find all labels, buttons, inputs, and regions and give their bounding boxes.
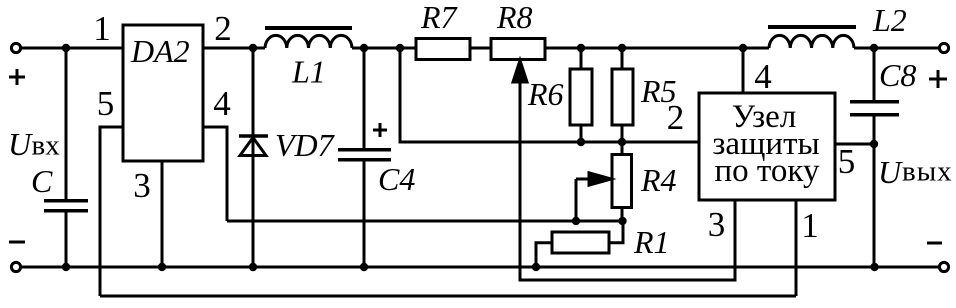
node C8 bottom <box>870 263 878 271</box>
node pin5 C8 <box>870 140 878 148</box>
svg-text:5: 5 <box>838 142 856 181</box>
svg-text:R6: R6 <box>527 76 564 112</box>
output terminal minus <box>939 262 948 271</box>
svg-text:по току: по току <box>715 153 820 189</box>
input terminal minus <box>11 262 20 271</box>
plus sign output <box>929 70 947 88</box>
svg-text:L1: L1 <box>291 54 326 90</box>
wire block pin4 <box>742 48 745 93</box>
svg-text:4: 4 <box>754 57 772 96</box>
node R4 bottom <box>618 217 626 225</box>
inductor L1 <box>265 35 352 48</box>
node C8 top <box>870 44 878 52</box>
node R6 top <box>577 44 585 52</box>
node R1 left bottom <box>532 263 540 271</box>
inductor L2 <box>769 35 854 48</box>
svg-text:C: C <box>31 163 53 199</box>
svg-text:3: 3 <box>133 166 151 205</box>
wire DA2 pin3 <box>161 161 164 267</box>
svg-text:1: 1 <box>801 206 819 245</box>
wire L2 to output terminal <box>854 47 939 50</box>
output terminal plus <box>939 43 948 52</box>
wire DA2 pin4 <box>203 127 227 221</box>
wire block pin5 to C8 <box>835 143 874 146</box>
svg-text:R7: R7 <box>420 0 459 35</box>
plus sign C4 <box>373 123 387 137</box>
node C top <box>62 44 70 52</box>
svg-text:C8: C8 <box>879 57 916 93</box>
minus sign output <box>927 242 942 245</box>
capacitor C8 <box>873 48 876 101</box>
svg-text:U: U <box>878 154 903 190</box>
node block pin4 <box>739 44 747 52</box>
wiper arrow R8 <box>520 79 735 280</box>
current protection block U2 <box>699 93 835 200</box>
svg-text:5: 5 <box>97 84 115 123</box>
plus sign input <box>9 69 25 85</box>
bottom rail wire <box>21 266 940 269</box>
resistor R4 <box>612 155 632 208</box>
svg-text:3: 3 <box>708 205 726 244</box>
wire R8 to L2 <box>545 47 769 50</box>
node R4 wiper <box>572 217 580 225</box>
wire DA2 pin2 to L1 <box>203 47 265 50</box>
wire R7 to R8 <box>470 47 491 50</box>
svg-text:вых: вых <box>902 156 953 188</box>
node VD7 bottom <box>249 263 257 271</box>
input terminal plus <box>11 43 20 52</box>
node C bottom <box>62 263 70 271</box>
resistor R5 <box>612 69 633 125</box>
diode VD7 <box>252 48 255 267</box>
capacitor C <box>65 48 68 200</box>
svg-text:4: 4 <box>213 84 231 123</box>
node C4 top <box>360 44 368 52</box>
op-amp U1 DA2 box <box>123 25 203 161</box>
svg-text:R4: R4 <box>640 162 677 198</box>
wire block pin3 <box>734 200 737 280</box>
svg-text:2: 2 <box>214 9 232 48</box>
node DA2 pin3 bottom <box>158 263 166 271</box>
resistor R8 <box>491 39 545 60</box>
svg-text:L2: L2 <box>872 2 907 38</box>
wire L1 to R7 <box>352 47 416 50</box>
wiper arrow R4 <box>576 179 591 221</box>
svg-text:U: U <box>8 126 33 162</box>
node R5 top <box>618 44 626 52</box>
svg-text:2: 2 <box>667 98 685 137</box>
svg-text:DA2: DA2 <box>130 33 190 69</box>
wire DA2 pin5 <box>100 127 123 296</box>
svg-text:R1: R1 <box>633 224 670 260</box>
wire pin4 net to R4 node <box>227 220 623 223</box>
resistor R7 <box>416 39 470 60</box>
resistor R1 <box>552 232 609 253</box>
wire top rail input to DA2 pin1 <box>21 47 123 50</box>
resistor R6 <box>570 69 592 125</box>
wire block pin1 <box>795 200 798 296</box>
node R5 bottom <box>618 138 626 146</box>
minus sign input <box>9 241 25 244</box>
svg-text:R8: R8 <box>496 0 533 35</box>
capacitor C4 <box>363 48 366 149</box>
node VD7 top <box>249 44 257 52</box>
node R6 bottom <box>577 138 585 146</box>
node C4 bottom <box>360 263 368 271</box>
node feedback tap wire to block pin2 <box>400 48 699 142</box>
svg-text:вх: вх <box>32 130 61 162</box>
wire pin5 to block pin1 bottom run <box>100 295 796 298</box>
svg-text:1: 1 <box>93 9 111 48</box>
svg-text:VD7: VD7 <box>275 127 336 163</box>
svg-text:C4: C4 <box>378 161 415 197</box>
node feedback tap <box>396 44 404 52</box>
